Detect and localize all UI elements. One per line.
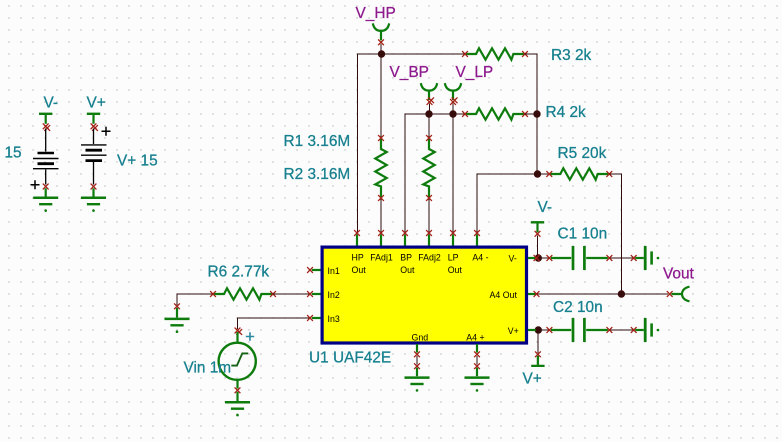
label R1 3.16M [284,133,351,150]
node junction V- pin [535,254,542,261]
label V- (rail near C1) [538,199,553,216]
wire C1 to right ground [611,257,633,259]
pin V- (right) [509,254,540,264]
label Vin 1m [184,360,232,377]
svg-text:R3 2k: R3 2k [551,47,592,64]
svg-text:FAdj1: FAdj1 [370,253,393,263]
label R5 20k [558,145,607,162]
pin Gnd (bottom) [412,332,429,357]
node junction R5 left [534,170,541,177]
ground below battery V2 [81,184,106,212]
terminal pin Vout [667,287,690,302]
battery V2 (V+) [81,127,111,185]
power rail V- above V- pin [531,222,544,236]
ground (sideways) right of C2 [631,318,660,342]
svg-text:Vout: Vout [663,265,695,282]
svg-text:R1 3.16M: R1 3.16M [284,133,351,150]
svg-text:In1: In1 [328,266,340,276]
label R3 2k [551,47,592,64]
wire R2 to FAdj2 pin [428,199,430,233]
ground below battery V1 [33,184,58,212]
svg-text:A4 Out: A4 Out [490,290,518,300]
pin A4 - (top) [472,230,488,263]
svg-text:C1 10n: C1 10n [558,225,608,242]
net label V_BP [390,64,429,81]
voltage source Vin [219,328,256,389]
node junction V+ pin [535,326,542,333]
node junction V_BP [425,110,432,117]
pin FAdj1 (top) [370,230,393,263]
wire V_LP node down to LP pin [452,114,454,233]
battery V1 (V-) [31,129,59,190]
label V+ (battery V2 net) [87,95,106,112]
value label 15 of battery V1 [5,145,22,162]
wire A4 Out pin to node [538,293,621,295]
resistor R3 [462,48,528,59]
pin FAdj2 (top) [418,230,441,263]
resistor R2 (vertical) [423,135,434,201]
pin BP Out (top) [400,230,415,275]
wire R5 row to A4- column [477,174,538,233]
svg-text:V+: V+ [523,371,542,388]
svg-text:V+: V+ [508,326,519,336]
wire V_HP terminal to node [380,44,382,53]
resistor R4 [462,108,528,119]
svg-text:Vin 1m: Vin 1m [184,360,232,377]
svg-text:In2: In2 [328,290,340,300]
svg-text:C2 10n: C2 10n [553,299,603,316]
resistor R1 (vertical) [375,135,386,201]
terminal pin V_BP [421,83,437,105]
svg-text:A4 -: A4 - [472,253,488,263]
label C2 10n [553,299,603,316]
wire R6 to In2 pin [273,293,309,295]
svg-text:HP: HP [352,253,364,263]
svg-text:V+: V+ [87,95,106,112]
pin In2 (left) [307,290,340,300]
wire node to R5 [538,173,549,175]
value label V+ 15 of battery V2 [117,153,158,170]
pin HP Out (top) [352,230,367,275]
label R2 3.16M [284,166,351,183]
wire R3 to column 537 [525,54,537,113]
wire V_BP node to V_LP node [429,113,453,115]
terminal pin V_LP [445,83,461,105]
svg-text:Out: Out [352,265,367,275]
svg-text:V-: V- [509,254,517,264]
pin A4 Out (right) [490,290,540,300]
wire V_LP node to R4 [453,113,464,115]
wire node to Vout terminal [621,293,668,295]
wire V_HP node to R1 [380,54,382,137]
ground below Vin [225,387,250,416]
wire Gnd pin to ground [416,356,418,365]
label V- (battery V1 net) [44,95,59,112]
wire V_LP terminal to node [452,104,454,114]
svg-text:R6 2.77k: R6 2.77k [208,263,270,280]
wire node down to R5 node [536,114,538,174]
svg-text:V+ 15: V+ 15 [117,153,158,170]
ground (sideways) right of C1 [631,246,660,270]
op-amp IC U1 UAF42E body [322,247,526,343]
svg-text:V_LP: V_LP [456,64,494,81]
net label V_LP [456,64,494,81]
wire R4 to node [525,113,537,115]
wire R1 to FAdj1 pin [380,199,382,233]
svg-text:A4 +: A4 + [466,332,484,342]
wire V- node to C1 [538,257,548,259]
pin V+ (right) [508,326,536,336]
wire BP row to column 405 [405,114,429,233]
ground below Gnd pin [405,363,430,391]
power rail V+ below IC [531,351,544,366]
label V+ (rail below IC) [523,371,542,388]
label U1 UAF42E [309,350,391,367]
svg-text:R2 3.16M: R2 3.16M [284,166,351,183]
wire V+ node to C2 [538,329,548,331]
label C1 10n [558,225,608,242]
power rail V+ above battery V2 [87,114,100,131]
svg-text:Gnd: Gnd [412,332,429,342]
svg-text:V-: V- [538,199,553,216]
wire R5 to Vout column [609,174,621,294]
resistor R6 [210,288,276,299]
svg-text:LP: LP [448,253,459,263]
svg-text:15: 15 [5,145,22,162]
node junction R4 right [533,110,540,117]
wire V+ node down to V+ rail [537,330,539,353]
wire V- rail to V- pin node [537,235,539,257]
node junction Vout [618,290,625,297]
wire In3 pin to Vin [238,318,310,329]
ground below R6 left [165,303,190,333]
wire C2 to right ground [611,329,633,331]
svg-text:Out: Out [448,265,463,275]
label R4 2k [546,104,587,121]
resistor R5 [546,168,612,179]
pin LP Out (top) [448,230,463,275]
svg-text:FAdj2: FAdj2 [418,253,441,263]
svg-text:V_BP: V_BP [390,64,429,81]
capacitor C2 [547,318,613,342]
wire HP row left segment [358,54,382,233]
wire A4+ pin to ground [476,356,478,365]
capacitor C1 [547,246,613,270]
node junction V_LP [449,110,456,117]
wire R6 left corner [177,294,212,305]
svg-text:R5 20k: R5 20k [558,145,607,162]
svg-text:BP: BP [400,253,412,263]
net label V_HP [356,5,396,22]
svg-text:V_HP: V_HP [356,5,396,22]
ground below A4+ pin [465,363,490,391]
label R6 2.77k [208,263,270,280]
node junction V_HP [378,50,385,57]
pin In1 (left, unconnected) [307,266,340,276]
net label Vout [663,265,695,282]
wire node to R3 [381,53,464,55]
terminal pin V_HP [373,23,389,45]
svg-text:Out: Out [400,265,415,275]
svg-text:R4 2k: R4 2k [546,104,587,121]
wire V_BP terminal to node [429,104,431,114]
power rail V- above battery V1 [39,114,52,131]
svg-text:V-: V- [44,95,59,112]
pin A4 + (bottom) [466,332,484,357]
pin In3 (left) [307,314,340,324]
svg-text:In3: In3 [328,314,340,324]
wire V_BP node to R2 [428,114,430,137]
svg-text:U1 UAF42E: U1 UAF42E [309,350,391,367]
